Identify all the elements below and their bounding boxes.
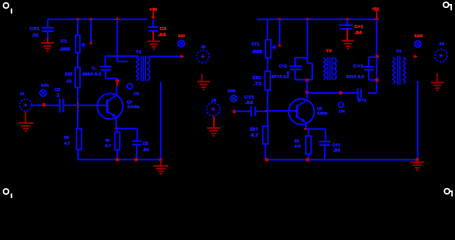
svg-text:10k: 10k (41, 82, 50, 87)
node junction V1 top (76, 18, 79, 21)
wire C3 top lead (152, 20, 154, 27)
corner registration mark top-right (443, 2, 451, 10)
svg-text:+B: +B (149, 7, 158, 12)
label R1 right (82, 72, 101, 77)
node collector junction (116, 79, 120, 83)
marker O left (127, 84, 132, 89)
jack J4 output right (435, 49, 447, 61)
wire emitter down (115, 117, 117, 129)
wire V2 to R6 (267, 58, 269, 72)
wire C31 to ground (47, 31, 49, 38)
power label +B left (149, 7, 158, 12)
capacitor C3 (148, 27, 158, 31)
corner registration mark top-left (3, 3, 11, 14)
wire collector red tick (116, 83, 118, 87)
capacitor C11 series (358, 88, 361, 98)
wire J1 ground lead red (25, 112, 27, 123)
wire J3 ground lead red (213, 116, 215, 128)
wire R2 bottom lead (77, 149, 79, 159)
wire cap C4 drop (104, 56, 106, 66)
node rail C cap right (346, 18, 349, 21)
net arrow secondary out (181, 54, 185, 58)
svg-text:463A 9.0: 463A 9.0 (82, 72, 101, 77)
wire C5 bottom lead (136, 145, 138, 160)
svg-text:3k: 3k (105, 137, 110, 142)
capacitor C8 emitter (319, 142, 331, 146)
svg-text:C31: C31 (30, 26, 41, 31)
label 171 left (134, 92, 140, 96)
svg-text:2k?: 2k? (250, 127, 259, 132)
wire top supply rail left (48, 18, 147, 20)
label T4 (396, 49, 402, 54)
node rail R7 (306, 158, 310, 162)
corner registration mark bottom-right (444, 189, 452, 197)
label 100 right (414, 33, 424, 38)
label 17 right (339, 109, 345, 113)
svg-text:C+1: C+1 (354, 24, 364, 29)
wire emitter horizontal right (306, 128, 326, 130)
label R6 left (252, 75, 262, 86)
wire mid input (234, 110, 251, 112)
ground below J1 (18, 123, 33, 131)
wire R3 top lead (116, 129, 118, 132)
svg-text:V?1: V?1 (60, 38, 67, 43)
wire C7 to collector (295, 79, 312, 81)
node emitter corner red right (304, 128, 309, 130)
svg-text:C+2: C+2 (279, 64, 287, 69)
jack J1 input left (20, 99, 32, 111)
svg-text:4?5: 4?5 (294, 144, 301, 149)
node mid input junction (233, 110, 237, 114)
svg-text:100k: 100k (127, 104, 140, 109)
svg-text:.84: .84 (354, 30, 362, 35)
label C3 (158, 26, 167, 37)
label C9 (354, 24, 364, 35)
wire input to cap (32, 104, 60, 106)
svg-text:C3: C3 (160, 26, 167, 31)
svg-text:T4: T4 (396, 49, 402, 54)
trimmer V2 body (266, 40, 271, 58)
wire V2 top lead (266, 19, 268, 39)
node junction +B2 (375, 17, 379, 21)
ground bottom right (410, 162, 424, 170)
capacitor C31 lead (47, 19, 49, 27)
resistor R6 body (265, 71, 270, 90)
label R8 (250, 127, 259, 138)
label 403A (346, 74, 364, 79)
svg-text:10k: 10k (227, 88, 236, 93)
transformer T3 core (328, 57, 332, 80)
connector marker 10k left (40, 90, 46, 96)
node input junction (42, 103, 46, 107)
ground below J4 (431, 83, 444, 91)
wire J2 ground lead red (201, 74, 203, 81)
ground below C3 (148, 41, 161, 49)
svg-text:231: 231 (252, 75, 261, 80)
wire branch down right (311, 63, 313, 79)
power +B2 lead (376, 11, 378, 19)
resistor R7 body (306, 136, 311, 154)
label T3 (326, 48, 333, 53)
label J3 (211, 98, 217, 103)
node base junction Q2 (265, 108, 270, 113)
connector marker 10k mid (230, 95, 236, 101)
trimmer V2 arrow (271, 45, 276, 50)
svg-text:C5: C5 (143, 141, 149, 146)
svg-text:.883: .883 (251, 49, 263, 54)
label R1 left (65, 72, 73, 84)
wire R8 bottom lead (264, 144, 266, 160)
transformer T3 primary winding (324, 58, 327, 80)
label Q2 (317, 105, 328, 115)
svg-text:4.7: 4.7 (105, 143, 112, 148)
resistor R2 body (77, 129, 82, 150)
wire R1 to base junction (77, 88, 79, 129)
wire T1 secondary out (149, 55, 181, 57)
svg-text:.84: .84 (142, 147, 149, 152)
node junction main vertical (115, 17, 119, 21)
power label +B2 (372, 6, 380, 11)
transistor Q1 (97, 93, 123, 119)
capacitor C5 emitter (132, 141, 142, 144)
svg-text:17%: 17% (134, 92, 140, 96)
svg-text:.03: .03 (66, 79, 72, 84)
label V2 (251, 42, 263, 54)
svg-text:.84: .84 (245, 100, 254, 105)
wire C8 bottom lead (324, 145, 326, 160)
wire V1 top lead (77, 19, 79, 35)
wire collector riser (116, 78, 118, 83)
transformer T3 secondary winding (333, 58, 336, 80)
node far-right node2 (375, 78, 379, 82)
wire C10 bottom lead (368, 70, 370, 80)
wire output return vertical (417, 81, 419, 160)
wire C7 bottom lead (294, 69, 296, 79)
wire cap to base (63, 104, 106, 106)
node rail R3 (116, 158, 120, 162)
svg-text:J1: J1 (20, 91, 26, 96)
wire V1 to R1 (77, 53, 79, 68)
wire R7 bottom lead (308, 154, 310, 160)
svg-text:2k: 2k (294, 138, 300, 143)
label C7 (279, 64, 290, 76)
node collector junction right (305, 79, 309, 83)
svg-text:C2: C2 (55, 87, 61, 92)
wire collector wire right (307, 92, 357, 94)
label 10k left (41, 82, 50, 87)
label C31 (30, 26, 41, 38)
svg-text:C.: C. (92, 66, 97, 71)
svg-text:233: 233 (65, 72, 73, 77)
wire R7 top lead (308, 129, 310, 136)
node rail ground left (159, 158, 162, 161)
wire stub at node1 (369, 56, 377, 58)
corner registration mark bottom-left (3, 189, 11, 198)
svg-text:100k: 100k (317, 111, 328, 116)
capacitor C31 (41, 28, 54, 32)
label J2 (201, 44, 206, 49)
connector marker 100 (178, 40, 184, 46)
wire collector lead right (306, 93, 308, 99)
wire dangling stub right (279, 19, 281, 46)
label C8 (332, 142, 340, 152)
ground below C31 (41, 43, 54, 51)
wire collector lead (116, 86, 118, 95)
node stub end (90, 42, 93, 45)
node junction stub top (90, 18, 93, 21)
node rail R8 (265, 158, 269, 162)
wire dangling stub (90, 19, 92, 43)
wire C9 top lead (346, 19, 348, 25)
label Q1 (127, 99, 141, 109)
ground below J2 (197, 82, 210, 90)
label 10k mid (227, 88, 236, 93)
node T3 secondary node (339, 91, 343, 95)
svg-text:C?1: C?1 (244, 94, 255, 99)
svg-text:J4: J4 (439, 41, 446, 46)
power +B lead (151, 12, 155, 20)
svg-text:.01: .01 (32, 33, 39, 38)
transformer T4 primary winding (393, 57, 395, 84)
label C4 (92, 66, 97, 71)
label J1 (20, 91, 26, 96)
wire emitter cap drop right (325, 129, 327, 141)
label C11 (358, 98, 367, 103)
svg-text:17%: 17% (339, 109, 345, 113)
svg-text:2k: 2k (64, 134, 70, 139)
svg-text:J3: J3 (211, 98, 217, 103)
wire R6 to base junction (267, 90, 269, 126)
svg-text:+B2: +B2 (372, 6, 380, 11)
wire branch stub right (307, 62, 312, 64)
wire main vertical right (306, 19, 308, 63)
jack J3 mid (207, 103, 220, 116)
resistor R1 body (75, 68, 80, 88)
node stub end right (278, 44, 281, 47)
label T1 (136, 49, 143, 54)
wire secondary return vertical (160, 82, 162, 160)
wire top supply rail right (257, 18, 377, 20)
transistor Q2 (289, 99, 315, 125)
svg-text:V?1: V?1 (251, 42, 260, 47)
trimmer V1 body (76, 35, 80, 52)
wire collector riser right (306, 80, 308, 92)
label C2 (55, 87, 61, 97)
label C10 (353, 63, 364, 68)
capacitor C7 (290, 66, 302, 69)
transformer T1 primary drop (137, 56, 139, 58)
svg-text:.71: .71 (253, 81, 262, 86)
svg-text:.883: .883 (59, 47, 71, 52)
net arrow right (414, 55, 418, 59)
capacitor C2 input (60, 98, 64, 112)
wire C4 to collector (106, 77, 118, 79)
capacitor C6 input right (251, 106, 255, 117)
wire bottom rail right (265, 159, 417, 161)
wire bottom rail left (78, 159, 161, 161)
wire J4 ground lead red (436, 73, 438, 82)
svg-text:E+1: E+1 (358, 98, 367, 103)
wire emitter cap drop (136, 129, 138, 141)
svg-text:4.7: 4.7 (64, 141, 71, 146)
wire stub at node2 (369, 79, 377, 81)
wire emitter horizontal (116, 128, 137, 130)
connector marker 100 right (415, 41, 421, 47)
jack J2 output left (197, 50, 209, 62)
svg-text:100: 100 (414, 33, 424, 38)
label V1 (59, 38, 71, 51)
label J4 (439, 41, 446, 46)
wire cap C7 drop (294, 58, 296, 66)
wire C3 ground lead red (152, 31, 154, 41)
svg-text:.84: .84 (158, 32, 167, 37)
wire C9 ground lead red (346, 29, 348, 41)
svg-text:4R?A 9.0: 4R?A 9.0 (271, 74, 289, 79)
svg-text:Q3: Q3 (317, 105, 323, 110)
transformer T1 secondary winding (147, 57, 150, 80)
wire ground stub right rail red (416, 160, 418, 162)
ground below C9 (342, 41, 355, 49)
wire emitter down right (305, 122, 307, 129)
wire ground stub left rail red (160, 160, 162, 166)
wire C4 bottom lead (105, 70, 107, 79)
resistor R3 body (115, 132, 120, 150)
label R6 right (271, 74, 289, 79)
label R2 (64, 134, 71, 145)
wire R3 bottom lead (116, 150, 118, 160)
ground below J3 (207, 128, 221, 136)
node base junction Q1 (75, 103, 80, 108)
svg-text:J2: J2 (201, 44, 206, 49)
transformer T4 secondary winding (403, 57, 405, 84)
trimmer V1 arrow (80, 42, 85, 47)
wire branch horizontal right (295, 57, 308, 59)
svg-text:.1: .1 (55, 93, 60, 98)
svg-text:.84: .84 (333, 148, 341, 153)
wire far-right vertical (376, 19, 378, 93)
wire C6 to base junction (255, 110, 267, 112)
node far-right node1 (375, 55, 379, 59)
node rail C5 (134, 158, 138, 162)
transformer T4 core (398, 56, 400, 85)
wire branch horizontal (105, 55, 138, 57)
transformer T1 core (141, 56, 145, 81)
label C5 (142, 141, 149, 152)
node junction stub right (278, 18, 281, 21)
wire far-right horizontal (368, 92, 377, 94)
svg-text:C+1: C+1 (353, 63, 364, 68)
node collector node2 (305, 91, 309, 95)
wire base to Q2 (268, 110, 297, 112)
wire branch stub (117, 60, 127, 62)
svg-text:T3: T3 (326, 48, 333, 53)
wire C10 top lead (368, 57, 370, 66)
svg-text:T1: T1 (136, 49, 143, 54)
capacitor C4 (100, 67, 112, 70)
resistor R8 body (263, 126, 268, 144)
node emitter corner red (115, 128, 119, 130)
node rail ground right (415, 158, 419, 162)
capacitor C9 (339, 25, 353, 29)
capacitor C10 bridge (364, 67, 374, 70)
svg-text:4.7: 4.7 (251, 133, 260, 138)
ground bottom left (153, 166, 168, 174)
transformer T1 primary winding (136, 57, 139, 80)
wire C31 ground lead red (47, 38, 49, 43)
svg-text:100: 100 (178, 33, 186, 38)
label R3 (105, 137, 112, 148)
label C6 (244, 94, 255, 105)
wire main vertical left (116, 19, 118, 61)
marker O right (339, 102, 344, 107)
label R7 (294, 138, 301, 149)
svg-text:403A 9.0: 403A 9.0 (346, 74, 364, 79)
label 100 (178, 33, 186, 38)
node junction main right (306, 18, 309, 21)
